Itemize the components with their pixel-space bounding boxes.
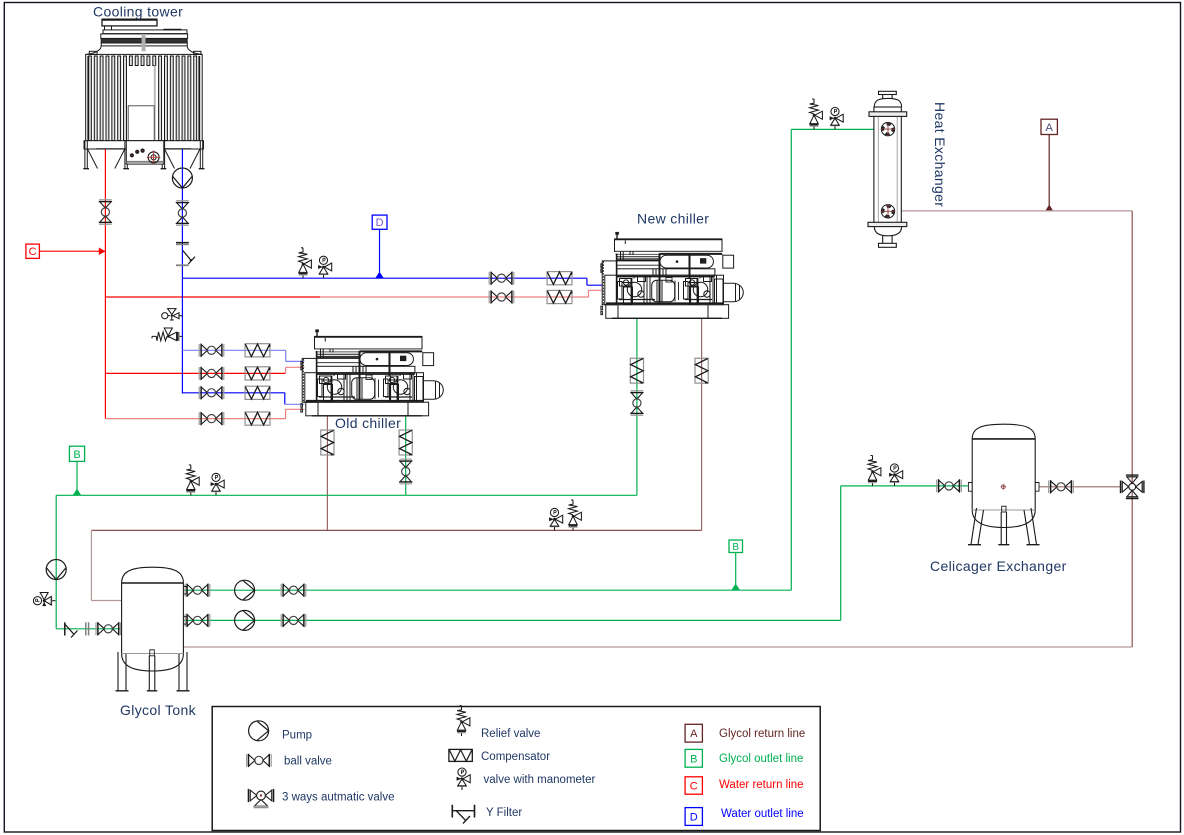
svg-text:D: D bbox=[690, 811, 698, 823]
svg-text:A: A bbox=[690, 728, 698, 740]
svg-text:Cooling tower: Cooling tower bbox=[93, 4, 183, 20]
svg-text:Old chiller: Old chiller bbox=[335, 415, 401, 431]
svg-text:C: C bbox=[29, 246, 37, 258]
svg-text:Water outlet line: Water outlet line bbox=[721, 808, 804, 820]
svg-text:Water return line: Water return line bbox=[719, 779, 804, 791]
svg-text:Relief valve: Relief valve bbox=[481, 728, 540, 740]
svg-text:Glycol Tonk: Glycol Tonk bbox=[120, 702, 197, 718]
svg-text:Celicager Exchanger: Celicager Exchanger bbox=[930, 558, 1067, 574]
svg-text:valve with manometer: valve with manometer bbox=[484, 774, 596, 786]
svg-text:Glycol return line: Glycol return line bbox=[719, 728, 805, 740]
svg-text:3 ways autmatic valve: 3 ways autmatic valve bbox=[282, 792, 395, 804]
svg-text:Glycol outlet line: Glycol outlet line bbox=[719, 753, 803, 765]
svg-text:Pump: Pump bbox=[282, 730, 312, 742]
svg-text:B: B bbox=[732, 542, 739, 553]
svg-text:ball valve: ball valve bbox=[284, 756, 332, 768]
svg-text:A: A bbox=[1046, 122, 1054, 134]
svg-text:B: B bbox=[73, 449, 80, 461]
svg-text:Heat Exchanger: Heat Exchanger bbox=[932, 102, 948, 207]
svg-text:New chiller: New chiller bbox=[637, 211, 709, 227]
svg-text:Y Filter: Y Filter bbox=[486, 807, 522, 819]
svg-text:D: D bbox=[376, 217, 384, 229]
svg-text:B: B bbox=[690, 753, 697, 765]
svg-text:C: C bbox=[690, 780, 698, 792]
svg-text:Compensator: Compensator bbox=[481, 751, 550, 763]
